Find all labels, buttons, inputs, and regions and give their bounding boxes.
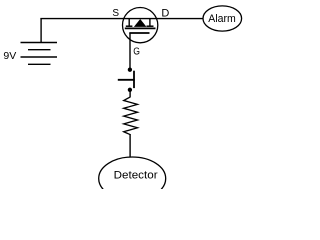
svg-text:G: G	[133, 47, 140, 58]
svg-text:9V: 9V	[3, 50, 16, 62]
svg-text:Detector: Detector	[114, 169, 158, 181]
svg-text:Alarm: Alarm	[208, 13, 236, 25]
svg-text:S: S	[112, 8, 119, 19]
svg-text:D: D	[161, 7, 169, 19]
